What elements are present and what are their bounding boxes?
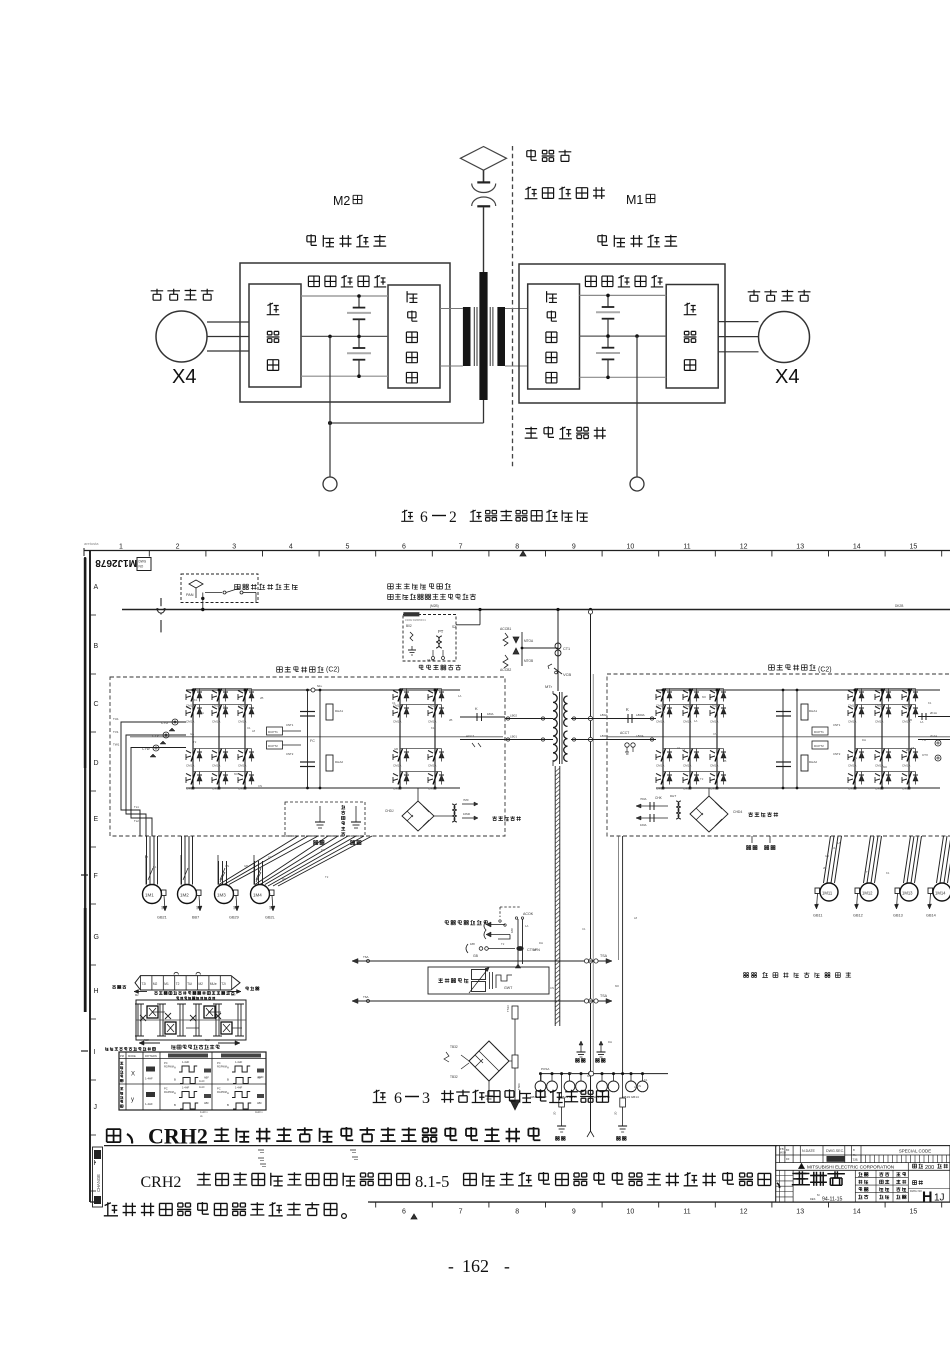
svg-text:TB32: TB32 — [450, 1075, 458, 1079]
svg-text:CM1A: CM1A — [656, 764, 664, 768]
svg-text:GB19 GB14: GB19 GB14 — [622, 1095, 639, 1099]
svg-text:1A: 1A — [525, 924, 529, 928]
svg-text:CM1A: CM1A — [683, 787, 691, 791]
svg-text:A: A — [174, 1066, 176, 1070]
svg-text:CN: CN — [637, 1084, 641, 1088]
svg-text:7: 7 — [459, 544, 463, 551]
svg-text:C1: C1 — [392, 701, 396, 705]
svg-text:14: 14 — [853, 544, 861, 551]
svg-text:TV1: TV1 — [113, 730, 119, 734]
svg-text:M0: M0 — [282, 877, 286, 881]
svg-text:PM: PM — [120, 1054, 124, 1058]
svg-text:(C2): (C2) — [818, 667, 832, 674]
svg-text:K1: K1 — [928, 701, 932, 705]
svg-text:CM1A: CM1A — [212, 764, 220, 768]
svg-text:TU1: TU1 — [113, 717, 119, 721]
svg-text:K1: K1 — [194, 698, 198, 702]
svg-text:NO: NO — [139, 565, 144, 569]
svg-text:TU: TU — [922, 738, 926, 742]
svg-text:DWG: DWG — [139, 560, 147, 564]
svg-text:CM1A: CM1A — [875, 720, 883, 724]
svg-text:1M12: 1M12 — [862, 891, 873, 896]
svg-text:CM1A: CM1A — [186, 764, 194, 768]
svg-text:M2: M2 — [199, 982, 204, 986]
svg-text:GB: GB — [473, 954, 479, 958]
svg-text:DES: DES — [810, 1197, 816, 1201]
svg-text:CNT2: CNT2 — [833, 752, 841, 756]
svg-text:CHD4: CHD4 — [733, 810, 742, 814]
svg-text:RGPWM: RGPWM — [217, 1091, 227, 1094]
svg-text:T2: T2 — [193, 740, 197, 744]
svg-text:L8: L8 — [145, 855, 149, 859]
svg-text:ACCT: ACCT — [620, 731, 629, 735]
svg-text:CN: CN — [853, 756, 857, 760]
svg-text:DWG NO: DWG NO — [910, 1189, 923, 1193]
svg-text:(C2): (C2) — [326, 667, 340, 674]
svg-text:GB: GB — [394, 747, 398, 751]
svg-text:A: A — [94, 584, 99, 591]
svg-text:6: 6 — [420, 509, 428, 526]
svg-text:M2: M2 — [153, 982, 158, 986]
svg-text:M0: M0 — [702, 695, 706, 699]
svg-text:12: 12 — [740, 1209, 748, 1216]
svg-text:CHK: CHK — [655, 796, 663, 800]
svg-text:12: 12 — [740, 544, 748, 551]
svg-text:11: 11 — [683, 1209, 690, 1216]
svg-text:DH: DH — [321, 848, 325, 852]
svg-text:C1: C1 — [268, 855, 272, 859]
svg-text:TB32: TB32 — [450, 1045, 458, 1049]
svg-text:VCB: VCB — [563, 672, 572, 677]
svg-text:A: A — [174, 1091, 176, 1095]
svg-text:2: 2 — [176, 544, 180, 551]
svg-text:190M2 DM3PDFC1: 190M2 DM3PDFC1 — [405, 619, 427, 622]
svg-text:4s10: 4s10 — [199, 1086, 205, 1089]
svg-text:M2: M2 — [333, 194, 350, 208]
svg-text:3: 3 — [232, 544, 236, 551]
svg-text:GB12: GB12 — [853, 914, 863, 918]
svg-text:T2: T2 — [176, 982, 180, 986]
svg-text:ABF: ABF — [204, 1077, 209, 1080]
svg-text:T6A: T6A — [363, 995, 369, 999]
svg-text:7: 7 — [459, 1209, 463, 1216]
svg-text:M1f: M1f — [205, 1038, 210, 1042]
svg-text:15: 15 — [910, 1209, 918, 1216]
svg-text:CN: CN — [713, 732, 717, 736]
svg-text:CT1: CT1 — [563, 647, 570, 651]
svg-text:M2: M2 — [135, 993, 139, 997]
svg-text:DHA2: DHA2 — [335, 760, 343, 764]
svg-text:ACC7: ACC7 — [466, 734, 474, 738]
svg-text:CHDJ: CHDJ — [385, 809, 394, 813]
svg-text:CM1A: CM1A — [848, 764, 856, 768]
svg-text:GB29: GB29 — [229, 916, 239, 920]
svg-text:DHA1: DHA1 — [335, 709, 343, 713]
svg-text:M0: M0 — [615, 984, 619, 988]
svg-text:CM1A: CM1A — [848, 720, 856, 724]
svg-text:GWT: GWT — [504, 986, 513, 990]
svg-text:CN: CN — [258, 784, 262, 788]
svg-text:4s10: 4s10 — [258, 1076, 264, 1079]
svg-text:2G1A: 2G1A — [930, 734, 937, 738]
svg-text:1M3: 1M3 — [217, 893, 226, 898]
svg-text:L800A: L800A — [636, 713, 645, 717]
svg-text:TUi: TUi — [187, 982, 192, 986]
svg-text:RGPWM: RGPWM — [164, 1066, 174, 1069]
svg-text:188: 188 — [510, 928, 514, 933]
svg-text:T2: T2 — [501, 942, 505, 946]
svg-text:PC: PC — [164, 1061, 168, 1065]
svg-text:MODE: MODE — [128, 1054, 136, 1058]
svg-text:ACOK: ACOK — [523, 912, 534, 916]
svg-text:6: 6 — [402, 1209, 406, 1216]
svg-text:700A: 700A — [640, 797, 647, 801]
svg-text:CM1A: CM1A — [656, 787, 664, 791]
svg-text:188: 188 — [470, 942, 475, 946]
svg-text:DF: DF — [786, 1157, 790, 1161]
svg-text:CHANGE: CHANGE — [96, 1174, 101, 1192]
svg-text:T2: T2 — [325, 875, 329, 879]
svg-text:BF: BF — [786, 1148, 790, 1152]
svg-text:13: 13 — [796, 1209, 804, 1216]
svg-text:A: A — [227, 1066, 229, 1070]
svg-text:1-4HF: 1-4HF — [235, 1086, 243, 1090]
svg-text:L8: L8 — [682, 748, 686, 752]
svg-text:BB7: BB7 — [192, 916, 199, 920]
svg-text:162: 162 — [462, 1256, 489, 1276]
svg-text:CM1A: CM1A — [683, 720, 691, 724]
svg-text:MUe: MUe — [210, 982, 217, 986]
svg-text:TW1: TW1 — [113, 743, 120, 747]
svg-text:DHT: DHT — [670, 794, 676, 798]
svg-text:16M0: 16M0 — [463, 812, 470, 816]
svg-text:1-4HF: 1-4HF — [182, 1086, 190, 1090]
svg-text:200: 200 — [925, 1165, 934, 1171]
svg-text:PC: PC — [217, 1061, 221, 1065]
svg-text:2M: 2M — [232, 905, 237, 909]
svg-text:D: D — [94, 760, 99, 767]
svg-text:04 54: 04 54 — [427, 658, 435, 662]
svg-text:DCPT1: DCPT1 — [814, 730, 824, 734]
svg-text:10: 10 — [627, 1209, 635, 1216]
svg-text:L8: L8 — [634, 1085, 638, 1089]
svg-text:GB: GB — [568, 1071, 572, 1075]
svg-text:15: 15 — [910, 544, 918, 551]
svg-text:1-4HF: 1-4HF — [235, 1060, 243, 1064]
svg-text:2B: 2B — [533, 948, 537, 952]
svg-text:T2: T2 — [405, 771, 409, 775]
svg-text:N.DATE: N.DATE — [802, 1149, 816, 1153]
svg-text:2B: 2B — [449, 718, 453, 722]
svg-text:CM1A: CM1A — [186, 720, 194, 724]
svg-text:ACCB2: ACCB2 — [500, 668, 511, 672]
svg-text:GB: GB — [908, 718, 912, 722]
svg-text:DCPT2: DCPT2 — [814, 744, 824, 748]
svg-text:1A: 1A — [458, 694, 462, 698]
svg-text:T2: T2 — [700, 777, 704, 781]
svg-text:1M4: 1M4 — [253, 893, 262, 898]
svg-text:1A: 1A — [694, 719, 698, 723]
svg-text:DK2B: DK2B — [895, 604, 903, 608]
svg-text:13: 13 — [796, 544, 804, 551]
svg-text:4s10: 4s10 — [258, 1070, 264, 1073]
svg-text:PC: PC — [217, 1087, 221, 1091]
svg-text:2M: 2M — [160, 905, 165, 909]
svg-text:GB11: GB11 — [813, 914, 822, 918]
svg-text:C: C — [94, 701, 99, 708]
svg-text:C1: C1 — [832, 846, 836, 850]
svg-text:2B: 2B — [723, 759, 727, 763]
svg-text:J: J — [94, 1104, 98, 1111]
svg-text:E: E — [94, 816, 99, 823]
svg-text:DH: DH — [200, 711, 204, 715]
svg-text:K1: K1 — [886, 871, 890, 875]
svg-text:PT: PT — [438, 629, 444, 634]
svg-text:CM1A: CM1A — [186, 787, 194, 791]
svg-text:5: 5 — [345, 544, 349, 551]
svg-text:1-4HF: 1-4HF — [145, 1077, 153, 1081]
svg-text:8: 8 — [515, 544, 519, 551]
svg-text:ABF: ABF — [204, 1102, 209, 1105]
svg-text:MTOA: MTOA — [524, 639, 534, 643]
svg-text:DH: DH — [661, 710, 665, 714]
svg-text:L802: L802 — [600, 713, 607, 717]
svg-text:TSA: TSA — [600, 954, 608, 958]
svg-text:2B: 2B — [260, 696, 264, 700]
svg-text:P.B: P.B — [780, 1147, 784, 1151]
svg-text:1M11: 1M11 — [822, 891, 833, 896]
svg-text:2: 2 — [449, 509, 457, 526]
svg-text:DWG.SEC.: DWG.SEC. — [826, 1149, 844, 1153]
svg-text:94-11-15: 94-11-15 — [822, 1196, 842, 1202]
svg-text:CM1A: CM1A — [428, 787, 436, 791]
svg-text:7M0: 7M0 — [463, 798, 469, 802]
svg-text:2M: 2M — [195, 905, 200, 909]
svg-text:CM1A: CM1A — [393, 787, 401, 791]
svg-text:CM1A: CM1A — [238, 764, 246, 768]
svg-text:GB21: GB21 — [157, 916, 167, 920]
svg-text:TS06: TS06 — [517, 1083, 521, 1090]
svg-text:PAN: PAN — [186, 593, 194, 597]
svg-text:X4: X4 — [775, 366, 799, 388]
svg-text:DCPT2: DCPT2 — [268, 744, 278, 748]
svg-text:TSA: TSA — [600, 994, 608, 998]
svg-text:2M: 2M — [268, 905, 273, 909]
svg-text:CM1A: CM1A — [683, 764, 691, 768]
svg-text:1: 1 — [119, 544, 123, 551]
svg-text:CM1A: CM1A — [710, 720, 718, 724]
svg-text:TL1: TL1 — [134, 805, 139, 809]
svg-text:2B: 2B — [906, 748, 910, 752]
svg-text:A: A — [227, 1091, 229, 1095]
svg-text:T2i: T2i — [142, 982, 147, 986]
svg-text:T6A: T6A — [363, 955, 369, 959]
svg-text:2K1A: 2K1A — [930, 711, 937, 715]
svg-text:1J: 1J — [934, 1193, 945, 1204]
svg-text:TS13: TS13 — [506, 1005, 510, 1012]
svg-text:CN: CN — [550, 986, 554, 990]
svg-text:1A: 1A — [837, 841, 841, 845]
svg-text:L80lA: L80lA — [636, 734, 644, 738]
svg-text:CM1A: CM1A — [710, 787, 718, 791]
svg-text:CM1A: CM1A — [393, 720, 401, 724]
svg-text:(M2B): (M2B) — [430, 604, 439, 608]
svg-text:8.1-5: 8.1-5 — [415, 1172, 449, 1191]
svg-text:CM1A: CM1A — [428, 764, 436, 768]
svg-text:180A: 180A — [487, 712, 494, 716]
svg-text:160A: 160A — [640, 823, 647, 827]
svg-text:CM1A: CM1A — [902, 787, 910, 791]
svg-text:CNT2: CNT2 — [286, 752, 294, 756]
svg-text:ABF: ABF — [257, 1102, 262, 1105]
svg-text:GB14: GB14 — [926, 914, 936, 918]
svg-text:PATTERN: PATTERN — [145, 1054, 157, 1058]
svg-text:JD: JD — [614, 1112, 618, 1115]
svg-text:M1: M1 — [626, 193, 643, 207]
svg-text:8: 8 — [515, 1209, 519, 1216]
svg-text:B02: B02 — [406, 624, 412, 628]
svg-text:L8: L8 — [911, 746, 915, 750]
svg-text:1M1: 1M1 — [145, 893, 154, 898]
svg-text:7/8: 7/8 — [853, 1158, 858, 1162]
svg-text:6: 6 — [402, 544, 406, 551]
svg-text:CRH2: CRH2 — [148, 1124, 208, 1149]
svg-text:B: B — [227, 1103, 229, 1107]
svg-text:4: 4 — [289, 544, 293, 551]
svg-text:6: 6 — [394, 1090, 402, 1107]
svg-text:F: F — [94, 873, 98, 880]
svg-text:4s10 v: 4s10 v — [255, 1110, 263, 1114]
svg-text:RGPWM: RGPWM — [217, 1066, 227, 1069]
svg-text:CM1A: CM1A — [212, 720, 220, 724]
svg-text:LB01: LB01 — [510, 735, 517, 739]
svg-text:CM1A: CM1A — [428, 720, 436, 724]
svg-text:GB: GB — [244, 864, 248, 868]
svg-text:DHA1: DHA1 — [809, 709, 817, 713]
svg-text:CTV: CTV — [922, 753, 928, 757]
svg-text:DH: DH — [862, 738, 866, 742]
svg-text:H: H — [922, 1190, 932, 1206]
svg-text:C1: C1 — [247, 726, 251, 730]
svg-text:POSA: POSA — [541, 1067, 549, 1071]
svg-text:G: G — [94, 934, 99, 941]
svg-text:N1L: N1L — [317, 684, 323, 688]
svg-text:-: - — [504, 1256, 510, 1276]
svg-text:1M14: 1M14 — [935, 891, 946, 896]
svg-text:MTr: MTr — [545, 684, 553, 689]
svg-text:14: 14 — [853, 1209, 861, 1216]
svg-text:TL2: TL2 — [134, 819, 139, 823]
svg-text:X4: X4 — [172, 366, 196, 388]
svg-text:GB: GB — [190, 732, 194, 736]
svg-text:aretusta: aretusta — [84, 541, 99, 546]
svg-text:CM1A: CM1A — [212, 787, 220, 791]
svg-text:-: - — [448, 1256, 454, 1276]
svg-text:C1: C1 — [677, 746, 681, 750]
svg-text:GB: GB — [825, 854, 829, 858]
svg-text:CM1A: CM1A — [238, 720, 246, 724]
svg-text:GB13: GB13 — [893, 914, 903, 918]
svg-text:PC: PC — [164, 1087, 168, 1091]
svg-text:DH: DH — [608, 1040, 612, 1044]
svg-text:M1J2678: M1J2678 — [95, 557, 137, 568]
svg-text:1A: 1A — [223, 704, 227, 708]
svg-text:SPECIAL CODE: SPECIAL CODE — [899, 1149, 931, 1154]
svg-text:FC: FC — [310, 739, 315, 743]
svg-text:M1: M1 — [164, 982, 169, 986]
svg-text:4s10: 4s10 — [199, 1080, 205, 1083]
svg-text:1M2: 1M2 — [180, 893, 189, 898]
svg-text:T2i: T2i — [221, 982, 226, 986]
svg-text:L8: L8 — [634, 916, 638, 920]
svg-text:CM1A: CM1A — [902, 764, 910, 768]
svg-text:CNT1: CNT1 — [833, 723, 841, 727]
svg-text:H: H — [94, 988, 99, 995]
svg-text:K1: K1 — [153, 865, 157, 869]
svg-text:K1: K1 — [431, 726, 435, 730]
svg-text:S2: S2 — [452, 625, 456, 629]
svg-text:K: K — [626, 707, 629, 712]
svg-text:9: 9 — [572, 1209, 576, 1216]
svg-text:1A: 1A — [920, 720, 924, 724]
svg-text:DCPT1: DCPT1 — [268, 730, 278, 734]
svg-text:CRH2: CRH2 — [141, 1174, 182, 1191]
svg-text:DH: DH — [539, 941, 543, 945]
svg-text:K: K — [475, 706, 478, 711]
svg-text:I: I — [94, 1049, 96, 1056]
svg-text:X: X — [131, 1072, 135, 1078]
svg-text:B: B — [94, 643, 99, 650]
svg-text:MTOB: MTOB — [524, 659, 533, 663]
svg-text:M2f: M2f — [144, 1038, 149, 1042]
svg-text:2B: 2B — [823, 866, 827, 870]
svg-text:B: B — [174, 1078, 176, 1082]
svg-text:11: 11 — [683, 544, 690, 551]
svg-text:ACCB1: ACCB1 — [500, 627, 511, 631]
svg-text:1s10 v: 1s10 v — [200, 1110, 208, 1114]
svg-text:C1: C1 — [582, 927, 586, 931]
svg-text:DHA2: DHA2 — [809, 760, 817, 764]
svg-text:3: 3 — [422, 1090, 430, 1107]
svg-text:T2: T2 — [866, 870, 870, 874]
svg-text:L8: L8 — [252, 729, 256, 733]
svg-text:CM1A: CM1A — [393, 764, 401, 768]
svg-text:L801: L801 — [600, 734, 607, 738]
svg-text:CM1A: CM1A — [238, 787, 246, 791]
svg-text:LB02: LB02 — [510, 714, 517, 718]
svg-text:K1: K1 — [644, 1078, 648, 1082]
svg-text:CNT1: CNT1 — [286, 723, 294, 727]
svg-text:RGPWM: RGPWM — [164, 1091, 174, 1094]
svg-text:CM1A: CM1A — [656, 720, 664, 724]
svg-text:1-4HF: 1-4HF — [182, 1060, 190, 1064]
svg-text:M0: M0 — [883, 765, 887, 769]
svg-text:1M13: 1M13 — [902, 891, 913, 896]
svg-text:M0: M0 — [234, 772, 238, 776]
svg-text:M0: M0 — [587, 1074, 591, 1078]
svg-text:MITSUBISHI ELECTRIC CORPORAT: MITSUBISHI ELECTRIC CORPORATION — [807, 1165, 894, 1170]
svg-text:CM1A: CM1A — [848, 787, 856, 791]
svg-text:JD: JD — [553, 1112, 557, 1115]
svg-text:y: y — [131, 1097, 134, 1103]
svg-text:10: 10 — [627, 544, 635, 551]
svg-text:CM1A: CM1A — [710, 764, 718, 768]
svg-text:Rn: Rn — [853, 1153, 857, 1157]
svg-text:CM1A: CM1A — [875, 787, 883, 791]
svg-text:1-4HF: 1-4HF — [145, 1102, 153, 1106]
svg-text:B: B — [174, 1103, 176, 1107]
svg-text:9: 9 — [572, 544, 576, 551]
